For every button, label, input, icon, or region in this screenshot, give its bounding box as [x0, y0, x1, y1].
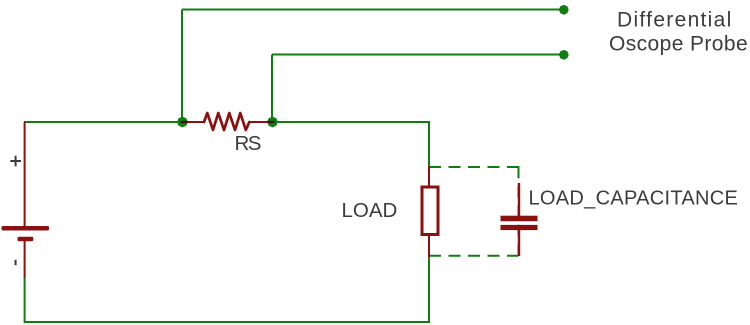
svg-text:RS: RS — [235, 132, 261, 155]
wire left vertical lower — [24, 277, 26, 323]
wire probe2 horizontal — [272, 54, 562, 56]
battery V1 positive plate — [2, 226, 50, 231]
dashed net bottom — [429, 255, 519, 257]
wire probe2 vertical — [271, 55, 273, 123]
battery V1 top lead — [24, 122, 26, 227]
capacitor bottom plate — [501, 225, 538, 230]
svg-text:LOAD: LOAD — [342, 199, 398, 222]
load resistor bottom lead — [428, 235, 430, 258]
dashed net right — [518, 166, 520, 256]
capacitor top plate — [501, 216, 538, 222]
battery plus label — [10, 156, 21, 167]
battery minus label — [15, 260, 17, 265]
svg-text:LOAD_CAPACITANCE: LOAD_CAPACITANCE — [529, 188, 739, 210]
probe terminal dot 1 — [559, 5, 569, 15]
junction node right of RS — [267, 117, 278, 128]
battery V1 bottom lead — [24, 241, 26, 278]
probe terminal dot 2 — [559, 50, 569, 60]
wire probe1 horizontal — [182, 9, 562, 11]
wire main right — [273, 121, 430, 123]
dashed net top — [429, 166, 519, 168]
battery V1 negative plate — [18, 237, 34, 241]
svg-text:Differential: Differential — [617, 9, 733, 32]
wire bottom — [24, 321, 430, 323]
resistor RS — [182, 113, 273, 130]
load resistor top lead — [428, 166, 430, 187]
wire main left — [24, 121, 182, 123]
wire right vertical upper — [428, 121, 430, 167]
capacitor bottom lead — [518, 230, 520, 256]
wire right vertical lower — [428, 256, 430, 323]
junction node left of RS — [177, 117, 188, 128]
load resistor body — [422, 187, 438, 235]
wire probe1 vertical — [181, 10, 183, 123]
capacitor top lead — [518, 183, 520, 216]
svg-text:Oscope Probe: Oscope Probe — [609, 32, 748, 55]
